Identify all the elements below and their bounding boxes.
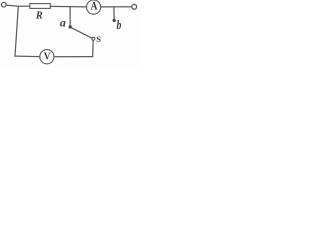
svg-text:b: b [116, 19, 121, 32]
svg-text:a: a [60, 15, 66, 29]
svg-text:A: A [91, 1, 98, 13]
svg-text:R: R [35, 10, 43, 21]
svg-text:S: S [96, 34, 101, 44]
svg-text:V: V [44, 51, 51, 63]
